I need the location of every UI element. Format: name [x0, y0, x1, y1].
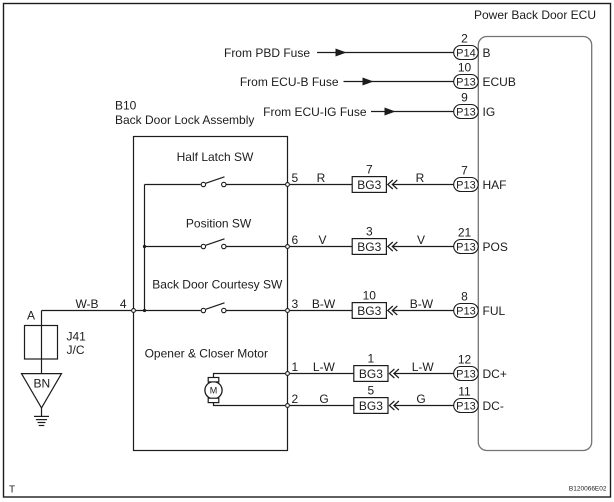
arrow: From ECU-B Fuse feed — [363, 78, 374, 86]
svg-text:From ECU-IG Fuse: From ECU-IG Fuse — [263, 105, 367, 119]
svg-text:IG: IG — [483, 105, 496, 119]
node 2 — [286, 404, 290, 408]
wire: BG3 to P13 DC- — [394, 405, 453, 407]
connector P13 pin 8 — [454, 304, 479, 318]
junction dot at Courtesy SW row — [143, 309, 146, 312]
chevrons BG3 — [389, 401, 394, 410]
ground triangle BN — [22, 374, 62, 408]
wire: Back Door Courtesy SW to node 3 — [227, 310, 286, 312]
svg-text:V: V — [318, 233, 326, 247]
connector P13 pin 9 — [454, 105, 479, 119]
wire: BG3 to P13 HAF — [393, 184, 454, 186]
wire: Position SW to node 6 — [227, 246, 286, 248]
svg-text:B: B — [483, 46, 491, 60]
wire: From ECU-IG Fuse to pin IG — [371, 111, 454, 113]
svg-text:DC+: DC+ — [483, 367, 507, 381]
svg-text:B10: B10 — [115, 99, 137, 113]
svg-text:9: 9 — [461, 91, 468, 105]
svg-text:Back Door Lock Assembly: Back Door Lock Assembly — [115, 113, 254, 127]
svg-text:R: R — [317, 171, 326, 185]
svg-text:R: R — [416, 171, 425, 185]
junction connector BG3 pin 10 — [352, 303, 386, 319]
svg-text:Back Door Courtesy SW: Back Door Courtesy SW — [152, 278, 283, 292]
svg-text:5: 5 — [368, 384, 375, 398]
svg-text:G: G — [319, 392, 328, 406]
junction dot at Position SW row — [143, 245, 146, 248]
svg-text:T: T — [9, 485, 15, 496]
svg-text:DC-: DC- — [483, 399, 504, 413]
svg-text:Position SW: Position SW — [186, 216, 252, 230]
svg-text:11: 11 — [458, 385, 471, 399]
svg-text:J41: J41 — [67, 330, 87, 344]
svg-text:P13: P13 — [456, 368, 476, 380]
connector P13 pin 10 — [454, 75, 479, 89]
svg-text:3: 3 — [292, 297, 299, 311]
wire: node 5 to BG3 — [290, 184, 352, 186]
Power Back Door ECU box U1 — [478, 37, 591, 451]
connector P14 pin 2 — [454, 46, 479, 60]
switch Position SW — [201, 244, 205, 248]
connector P13 pin 7 — [454, 178, 479, 192]
wire: to Half Latch SW — [145, 184, 201, 186]
junction connector J41 J/C — [25, 326, 58, 360]
svg-text:3: 3 — [366, 225, 373, 239]
svg-text:BN: BN — [33, 377, 50, 391]
svg-text:1: 1 — [368, 352, 375, 366]
svg-text:V: V — [417, 233, 425, 247]
wire: node 3 to BG3 — [290, 310, 352, 312]
svg-text:4: 4 — [120, 297, 127, 311]
svg-text:7: 7 — [366, 163, 373, 177]
B10 Back Door Lock Assembly box — [134, 137, 288, 451]
svg-text:1: 1 — [292, 360, 299, 374]
junction connector BG3 pin 1 — [354, 366, 388, 382]
svg-text:From ECU-B Fuse: From ECU-B Fuse — [240, 75, 339, 89]
junction connector BG3 pin 7 — [352, 177, 386, 193]
svg-text:P13: P13 — [456, 76, 476, 88]
arrow: From PBD Fuse feed — [336, 49, 347, 57]
wire: BG3 to P13 FUL — [393, 310, 454, 312]
svg-text:10: 10 — [363, 289, 377, 303]
svg-text:2: 2 — [461, 32, 468, 46]
svg-text:M: M — [210, 386, 218, 396]
chevrons BG3 — [388, 242, 393, 251]
chevrons BG3 — [388, 180, 393, 189]
svg-text:BG3: BG3 — [357, 304, 381, 318]
node 4 — [132, 309, 136, 313]
svg-text:P13: P13 — [456, 305, 476, 317]
svg-text:W-B: W-B — [75, 297, 98, 311]
wire: BG3 to P13 POS — [393, 246, 454, 248]
svg-text:Opener & Closer Motor: Opener & Closer Motor — [145, 347, 268, 361]
svg-text:J/C: J/C — [67, 343, 85, 357]
svg-text:P13: P13 — [456, 106, 476, 118]
motor M1 — [205, 382, 222, 399]
svg-text:B-W: B-W — [410, 297, 434, 311]
junction connector BG3 pin 5 — [354, 398, 388, 414]
svg-text:P13: P13 — [456, 400, 476, 412]
svg-text:From PBD Fuse: From PBD Fuse — [224, 46, 310, 60]
svg-text:12: 12 — [458, 353, 472, 367]
wire: BG3 to P13 DC+ — [394, 373, 453, 375]
svg-text:B-W: B-W — [312, 297, 336, 311]
switch Half Latch SW — [201, 182, 205, 186]
svg-text:Half Latch SW: Half Latch SW — [177, 150, 254, 164]
node 1 — [286, 372, 290, 376]
svg-text:6: 6 — [292, 233, 299, 247]
svg-text:FUL: FUL — [483, 304, 506, 318]
svg-text:HAF: HAF — [483, 178, 507, 192]
svg-text:P13: P13 — [456, 241, 476, 253]
svg-text:5: 5 — [292, 171, 299, 185]
bus wire: internal vertical bus — [144, 185, 146, 311]
svg-text:BG3: BG3 — [359, 399, 383, 413]
wire: node 6 to BG3 — [290, 246, 352, 248]
wire: down to ground — [41, 311, 43, 374]
junction connector BG3 pin 3 — [352, 239, 386, 255]
svg-text:ECUB: ECUB — [483, 75, 516, 89]
svg-text:2: 2 — [292, 392, 299, 406]
svg-text:BG3: BG3 — [359, 367, 383, 381]
wire: to Back Door Courtesy SW — [136, 310, 201, 312]
wire: node 2 to BG3 — [290, 405, 354, 407]
svg-text:8: 8 — [461, 290, 468, 304]
arrow: From ECU-IG Fuse feed — [385, 108, 396, 116]
svg-text:P14: P14 — [456, 47, 476, 59]
svg-text:A: A — [27, 309, 35, 323]
svg-text:7: 7 — [461, 164, 468, 178]
connector P13 pin 21 — [454, 240, 479, 254]
svg-text:BG3: BG3 — [357, 178, 381, 192]
connector P13 pin 12 — [454, 367, 479, 381]
svg-text:P13: P13 — [456, 179, 476, 191]
chevrons BG3 — [389, 369, 394, 378]
switch Back Door Courtesy SW — [201, 308, 205, 312]
svg-text:10: 10 — [458, 61, 472, 75]
wire W-B: ground branch to node 4 — [42, 310, 132, 312]
svg-text:B120066E02: B120066E02 — [569, 486, 607, 493]
connector P13 pin 11 — [454, 399, 479, 413]
svg-text:L-W: L-W — [313, 360, 336, 374]
svg-text:POS: POS — [483, 240, 508, 254]
svg-text:BG3: BG3 — [357, 240, 381, 254]
wire: node 1 to BG3 — [290, 373, 354, 375]
wire: motor to node 2 — [214, 403, 286, 406]
ground symbol — [41, 408, 43, 417]
node 6 — [286, 245, 290, 249]
wire: From ECU-B Fuse to pin ECUB — [344, 81, 454, 83]
svg-text:Power Back Door ECU: Power Back Door ECU — [474, 8, 596, 22]
node 3 — [286, 309, 290, 313]
chevrons BG3 — [388, 306, 393, 315]
svg-text:G: G — [416, 392, 425, 406]
wire: to Position SW — [145, 246, 201, 248]
wire: From PBD Fuse to pin B — [317, 52, 454, 54]
svg-text:21: 21 — [458, 226, 472, 240]
node 5 — [286, 183, 290, 187]
svg-text:L-W: L-W — [412, 360, 435, 374]
wire: Half Latch SW to node 5 — [227, 184, 286, 186]
wire: motor to node 1 — [214, 374, 286, 378]
